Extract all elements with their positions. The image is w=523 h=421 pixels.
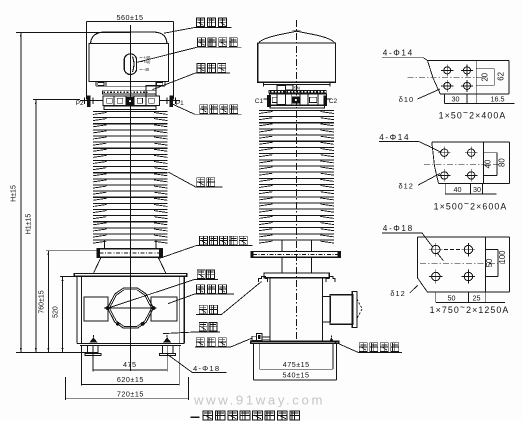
label C1 <box>255 98 264 105</box>
dimension 475 <box>93 346 167 371</box>
tank top plate view1 <box>74 274 187 277</box>
H top extension line <box>16 31 130 33</box>
svg-text:100: 100 <box>498 250 507 264</box>
centerline view2 <box>296 20 298 341</box>
ground extension line <box>16 352 98 354</box>
H1 extension line <box>33 99 80 101</box>
terminal assembly view2 <box>270 94 327 105</box>
svg-text:SN: SN <box>294 86 300 91</box>
label connection plate <box>153 64 230 90</box>
grounding bolt view2 <box>329 335 334 341</box>
svg-text:4-Φ14: 4-Φ14 <box>379 133 410 142</box>
detail3 centerlines <box>420 250 505 264</box>
plate under terminal view2 <box>270 105 325 108</box>
svg-text:C1: C1 <box>255 98 264 105</box>
detail2 dim 40 <box>483 153 497 176</box>
feet view1 <box>85 346 176 356</box>
label instruction plate <box>168 285 234 304</box>
svg-text:40: 40 <box>483 159 492 168</box>
svg-text:50: 50 <box>485 258 494 267</box>
head step view2 <box>264 82 330 90</box>
svg-text:P2: P2 <box>76 100 84 107</box>
label porcelain sleeve <box>168 172 222 187</box>
tank right window <box>151 297 177 321</box>
label 4-phi18 feet holes <box>167 354 226 373</box>
detail2 caption <box>434 199 508 212</box>
dimension 540±15 view2 <box>253 371 336 380</box>
svg-text:50: 50 <box>448 293 456 302</box>
svg-text:δ12: δ12 <box>399 181 414 190</box>
tank top plate view2 <box>264 273 329 278</box>
svg-text:δ10: δ10 <box>399 95 414 104</box>
svg-text:25: 25 <box>473 293 481 302</box>
svg-text:H1±15: H1±15 <box>26 214 33 235</box>
label P1 <box>176 100 184 107</box>
oil tank body view1 <box>77 276 184 345</box>
head side box view2 <box>277 85 285 104</box>
tank left window <box>84 297 108 321</box>
detail3 dim 100 <box>498 250 507 264</box>
svg-text:80: 80 <box>497 158 506 167</box>
terminals C1 C2 <box>264 95 331 107</box>
label oil level indicator <box>137 38 241 63</box>
dimension H±15 <box>11 32 22 352</box>
label P2 <box>76 100 84 107</box>
detail1 centerline <box>408 77 487 79</box>
svg-text:540±15: 540±15 <box>283 371 310 380</box>
svg-text:δ12: δ12 <box>390 289 405 298</box>
svg-text:H±15: H±15 <box>11 185 18 202</box>
detail3 bottom dims 50 25 <box>436 292 505 302</box>
detail2 label delta12 <box>399 173 441 190</box>
primary terminals P1 P2 <box>80 95 180 107</box>
dimension 520 <box>53 277 75 353</box>
oil level gauge <box>124 54 136 77</box>
dimension 475±15 view2 <box>260 360 333 369</box>
watermark <box>193 392 325 407</box>
label oil drain valve <box>195 338 252 347</box>
detail3 label 4-phi18 <box>382 224 443 261</box>
dimension 620±15 <box>82 346 180 386</box>
label primary terminal <box>173 104 242 114</box>
svg-text:30: 30 <box>473 185 481 194</box>
svg-text:720±15: 720±15 <box>117 389 144 398</box>
label C2 <box>329 98 338 105</box>
porcelain bushing view1 <box>93 111 168 243</box>
svg-text:1×500~2×600A: 1×500~2×600A <box>434 199 508 212</box>
detail3 label delta12 <box>390 286 417 299</box>
detail3 bolt holes <box>429 243 475 283</box>
primary terminal block view1 <box>103 96 159 105</box>
centerline tick view2 <box>293 30 301 32</box>
expander dome top view1 <box>91 32 168 43</box>
nameplate octagon view1 <box>106 288 156 328</box>
oil tank body view2 <box>270 278 323 342</box>
detail1 bottom dims 30 16.5 <box>445 94 515 104</box>
pedestal view2 <box>251 341 339 380</box>
detail1 bolt holes <box>441 64 473 92</box>
svg-text:475: 475 <box>123 360 137 369</box>
svg-text:www.91way.com: www.91way.com <box>193 392 325 407</box>
caption primary winding parallel <box>191 411 300 420</box>
junction plate box <box>146 85 156 96</box>
oil gauge level marks <box>140 55 151 72</box>
svg-text:20: 20 <box>481 72 490 81</box>
expander head box view1 <box>89 43 168 81</box>
side cylinder view2 <box>322 291 362 327</box>
detail2 centerline <box>424 164 500 166</box>
svg-text:475±15: 475±15 <box>283 360 310 369</box>
secondary flange view2 <box>251 252 340 258</box>
svg-text:40: 40 <box>454 185 462 194</box>
detail2 bottom dims 40 30 <box>445 183 496 194</box>
svg-text:62: 62 <box>497 72 506 81</box>
svg-text:4-Φ18: 4-Φ18 <box>193 364 220 373</box>
foot bolts view1 <box>89 335 171 343</box>
tank centerline view1 <box>104 307 157 309</box>
svg-text:760±15: 760±15 <box>38 290 45 313</box>
detail2 bolt holes <box>438 146 478 181</box>
detail1 label delta10 <box>399 89 440 104</box>
bushing neck view2 <box>282 240 311 252</box>
dotted flange row view2 <box>269 90 326 93</box>
expander dome view2 <box>259 31 335 43</box>
skirt transition view1 <box>94 257 166 273</box>
svg-text:520: 520 <box>53 306 60 318</box>
clamp hooks view2 <box>259 276 335 282</box>
svg-text:1×750~2×1250A: 1×750~2×1250A <box>430 302 510 315</box>
svg-text:1×50~2×400A: 1×50~2×400A <box>439 108 507 121</box>
dimension 760±15 <box>38 251 97 353</box>
detail1 dim 62 <box>497 72 506 81</box>
expander head box view2 <box>258 43 336 82</box>
label grounding bolt <box>334 342 402 353</box>
dotted flange row view1 <box>102 91 156 94</box>
svg-text:30: 30 <box>452 94 460 103</box>
detail1 label 4-phi14 <box>382 49 428 61</box>
detail3 dim 50 <box>485 250 498 277</box>
detail1 dim 20 <box>476 69 494 86</box>
label pengzhangqi (expander) <box>164 18 232 33</box>
svg-text:560±15: 560±15 <box>117 13 144 22</box>
secondary terminal box flange view1 <box>97 249 162 258</box>
centerline view1 <box>129 25 131 371</box>
head bottom step view1 <box>96 82 165 87</box>
svg-text:-40: -40 <box>143 67 150 72</box>
detail2 dim 80 <box>497 158 506 167</box>
svg-text:4-Φ14: 4-Φ14 <box>383 49 414 58</box>
label oil tank <box>163 323 220 334</box>
dimension 720±15 <box>65 377 188 400</box>
detail2 plate <box>432 142 510 183</box>
lower neck view2 <box>282 257 311 273</box>
SN mark <box>294 86 300 91</box>
detail1 plate <box>428 61 510 94</box>
detail2 label 4-phi14 <box>379 133 441 152</box>
svg-text:4-Φ18: 4-Φ18 <box>383 224 414 233</box>
label nameplate <box>108 270 218 308</box>
detail3 caption <box>430 302 510 315</box>
detail3 plate <box>418 237 510 292</box>
porcelain bushing view2 <box>259 110 334 243</box>
label lifting lug <box>196 282 261 315</box>
plate under terminal view1 <box>104 106 156 109</box>
svg-text:620±15: 620±15 <box>117 375 144 384</box>
dimension H1±15 <box>26 100 37 353</box>
svg-text:16.5: 16.5 <box>491 94 505 103</box>
dimension 560±15 <box>87 13 174 99</box>
oil drain valve view2 <box>251 334 270 341</box>
svg-text:C2: C2 <box>329 98 338 105</box>
label secondary terminal box <box>158 236 252 258</box>
detail1 caption <box>439 108 507 121</box>
bushing neck view1 <box>105 240 156 249</box>
